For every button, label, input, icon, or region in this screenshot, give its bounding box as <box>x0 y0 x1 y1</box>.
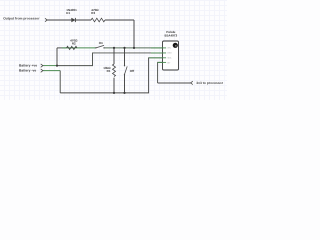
svg-text:B1A4973: B1A4973 <box>164 34 177 38</box>
svg-text:R3: R3 <box>91 11 95 15</box>
svg-text:VIN: VIN <box>167 47 171 50</box>
svg-text:SDA: SDA <box>167 57 172 60</box>
svg-text:GND: GND <box>167 52 172 55</box>
svg-text:Battery +ve: Battery +ve <box>19 63 37 67</box>
svg-text:D1: D1 <box>66 11 70 15</box>
svg-text:Output from processor: Output from processor <box>3 17 40 21</box>
svg-text:3v3 to processor: 3v3 to processor <box>196 81 223 85</box>
svg-text:R1: R1 <box>107 69 111 73</box>
svg-text:On: On <box>99 41 103 45</box>
svg-text:Off: Off <box>130 69 134 73</box>
svg-text:R2: R2 <box>72 42 76 46</box>
svg-text:Battery -ve: Battery -ve <box>19 68 36 72</box>
